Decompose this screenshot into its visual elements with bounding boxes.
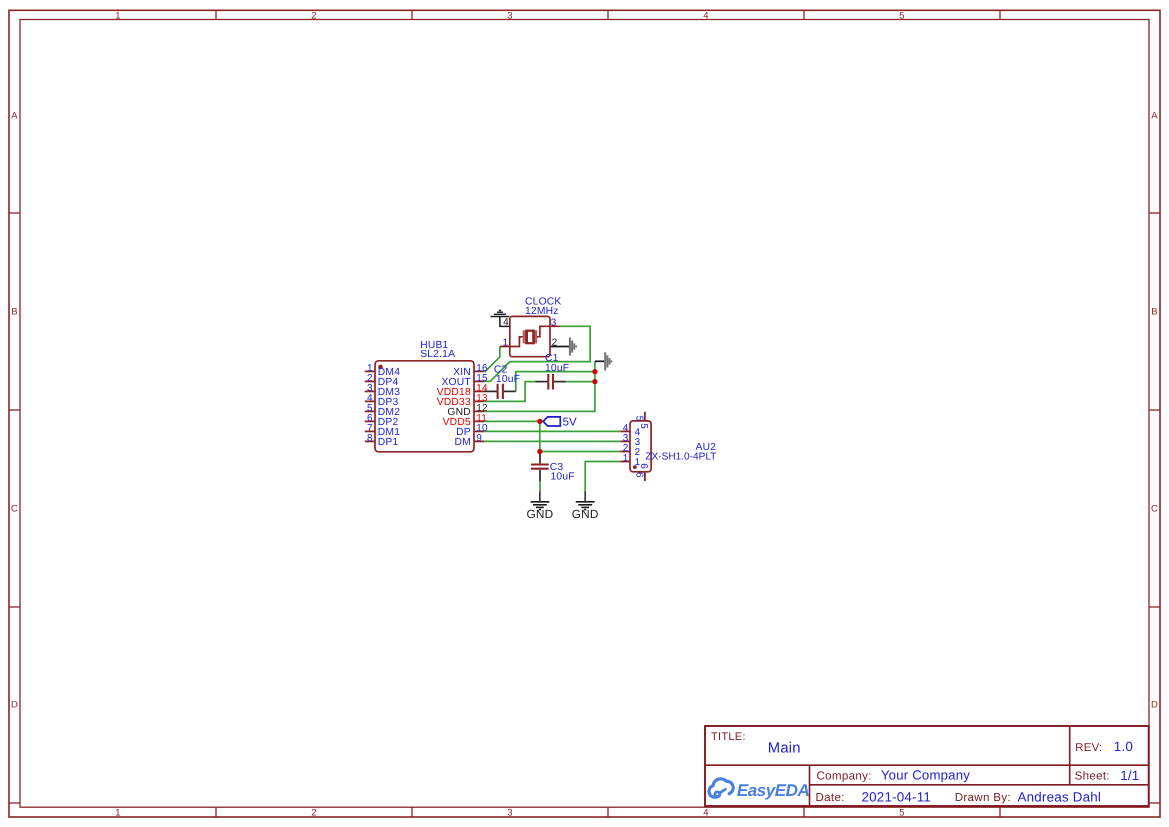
svg-text:EasyEDA: EasyEDA [737, 781, 810, 800]
svg-text:GND: GND [526, 507, 553, 521]
svg-text:3: 3 [507, 10, 512, 21]
svg-text:1: 1 [115, 807, 120, 818]
svg-text:Date:: Date: [816, 791, 845, 804]
svg-text:B: B [11, 307, 18, 318]
svg-text:5: 5 [899, 807, 904, 818]
svg-text:10uF: 10uF [496, 374, 520, 385]
svg-text:Main: Main [768, 741, 801, 757]
svg-text:Company:: Company: [817, 769, 872, 782]
svg-text:GND: GND [572, 507, 599, 521]
svg-text:2: 2 [552, 338, 558, 349]
svg-text:C: C [11, 504, 18, 515]
svg-text:A: A [11, 111, 18, 122]
svg-text:5V: 5V [563, 417, 577, 429]
svg-text:Drawn By:: Drawn By: [955, 791, 1011, 804]
svg-text:DM: DM [454, 437, 470, 448]
svg-text:D: D [1151, 700, 1158, 711]
svg-text:Andreas Dahl: Andreas Dahl [1018, 789, 1102, 804]
svg-text:6: 6 [634, 472, 645, 478]
svg-text:4: 4 [503, 317, 509, 328]
svg-text:Your Company: Your Company [881, 768, 970, 783]
svg-text:DP1: DP1 [378, 437, 399, 448]
svg-text:B: B [1151, 307, 1158, 318]
svg-text:12MHz: 12MHz [525, 306, 559, 317]
svg-text:10uF: 10uF [545, 363, 569, 374]
svg-text:1: 1 [503, 337, 509, 348]
svg-text:Sheet:: Sheet: [1075, 769, 1110, 782]
svg-text:1: 1 [115, 10, 120, 21]
svg-text:A: A [1151, 111, 1158, 122]
svg-text:2: 2 [311, 807, 316, 818]
svg-text:5: 5 [634, 416, 645, 422]
svg-text:5: 5 [638, 423, 649, 429]
svg-text:C: C [1151, 504, 1158, 515]
svg-text:SL2.1A: SL2.1A [420, 349, 455, 360]
svg-text:4: 4 [703, 10, 708, 21]
svg-text:8: 8 [367, 433, 373, 444]
svg-text:ZX-SH1.0-4PLT: ZX-SH1.0-4PLT [645, 452, 716, 463]
svg-text:1: 1 [623, 453, 629, 464]
svg-text:2021-04-11: 2021-04-11 [862, 789, 932, 804]
svg-text:3: 3 [507, 807, 512, 818]
svg-text:2: 2 [311, 10, 316, 21]
svg-text:1.0: 1.0 [1114, 739, 1133, 754]
svg-text:4: 4 [703, 807, 708, 818]
svg-text:1/1: 1/1 [1120, 768, 1139, 783]
svg-text:9: 9 [476, 433, 482, 444]
svg-text:6: 6 [638, 463, 649, 469]
svg-text:REV:: REV: [1075, 742, 1102, 754]
svg-text:5: 5 [899, 10, 904, 21]
svg-text:D: D [11, 700, 18, 711]
svg-text:10uF: 10uF [551, 471, 575, 482]
svg-text:TITLE:: TITLE: [711, 731, 746, 743]
svg-text:3: 3 [551, 317, 557, 328]
